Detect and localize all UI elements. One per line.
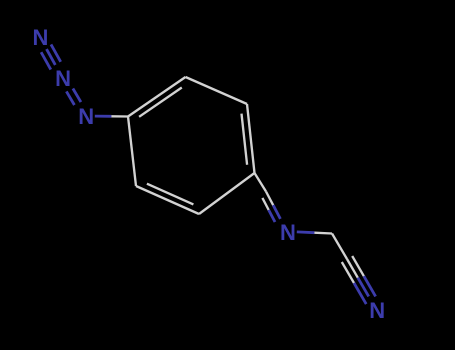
svg-text:N: N [369, 298, 385, 323]
svg-text:N: N [280, 220, 296, 245]
svg-text:N: N [55, 66, 71, 91]
svg-text:N: N [78, 104, 94, 129]
svg-text:N: N [33, 25, 49, 50]
